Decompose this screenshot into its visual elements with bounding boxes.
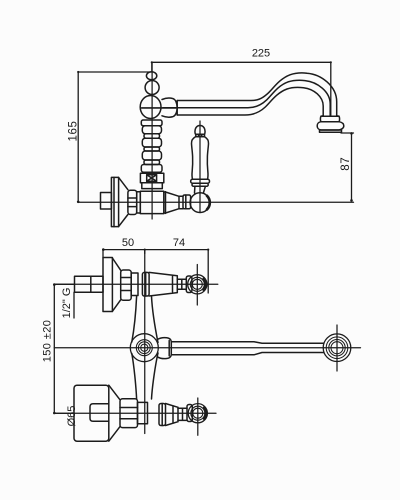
- bottom handle neck: [178, 408, 187, 420]
- 1/2" G thread label leader: [73, 292, 75, 318]
- svg-text:150 ±20: 150 ±20: [42, 320, 54, 362]
- top collar cone: [149, 272, 177, 296]
- spout tube (plan) top line: [171, 342, 323, 343]
- top collar ring: [142, 272, 149, 296]
- column rib barrel 6: [142, 151, 161, 160]
- top handle neck: [177, 279, 186, 289]
- top handle outer circle: [188, 275, 207, 294]
- dimension 50-74 line: [103, 250, 208, 293]
- column rib band 1: [141, 120, 162, 126]
- spout outlet ring top: [320, 116, 339, 122]
- lever handle lower neck: [195, 186, 206, 193]
- handle ball dark crescent: [207, 196, 210, 210]
- spout tube (plan) bottom line: [171, 353, 323, 355]
- packing nut X mark: [147, 175, 157, 182]
- column rib barrel 4: [142, 138, 161, 147]
- svg-text:74: 74: [173, 237, 185, 249]
- top handle inner circle: [192, 279, 202, 289]
- bottom stub notch: [90, 404, 109, 422]
- handle ball joint: [190, 193, 210, 213]
- bottom handle ball ring: [187, 405, 192, 422]
- svg-text:225: 225: [252, 48, 270, 60]
- column vertical centerline: [151, 62, 153, 219]
- top handle ball ring: [186, 276, 192, 293]
- bottom collar cone: [166, 404, 179, 426]
- column rib barrel 2: [142, 126, 161, 134]
- top handle dark crescent: [204, 279, 206, 290]
- bottom flange bell cone: [109, 385, 120, 441]
- bottom collar ring: [159, 404, 166, 426]
- column packing nut: [140, 173, 163, 182]
- body edge from top inlet right: [152, 296, 159, 342]
- lever handle vertical centerline: [199, 121, 201, 213]
- mixer housing screw circle: [138, 342, 150, 354]
- hex nut (side view): [128, 190, 137, 214]
- bottom body cylinder: [138, 402, 148, 423]
- bottom handle inner circle: [193, 408, 203, 418]
- lever handle body: [191, 137, 208, 180]
- lever handle base ring: [191, 179, 210, 183]
- flange bell cone: [119, 177, 128, 226]
- svg-text:165: 165: [68, 121, 80, 142]
- ring between nut and body: [137, 192, 141, 213]
- top body cylinder: [131, 273, 138, 296]
- svg-text:1/2" G: 1/2" G: [61, 288, 73, 319]
- dimension 165 line: [78, 72, 152, 202]
- spout end ring 2: [326, 337, 348, 359]
- bottom handle middle circle: [191, 406, 205, 420]
- top inlet centerline: [54, 283, 218, 285]
- wall flange plate (side view): [111, 177, 118, 226]
- mixer housing outer circle: [130, 334, 158, 362]
- column rib band 8: [141, 165, 162, 173]
- spout centerline (plan): [54, 347, 360, 349]
- bottom handle dark crescent: [204, 408, 206, 419]
- top handle middle circle: [190, 277, 204, 291]
- bottom flange plate 065 (plan): [74, 385, 109, 441]
- top hex nut (plan): [121, 270, 132, 300]
- spout outlet bulge: [317, 122, 344, 130]
- spout horizontal centerline through ball: [142, 107, 177, 109]
- mixer housing ring: [136, 340, 152, 356]
- top flange bell cone: [112, 258, 120, 311]
- top stub divider: [90, 276, 92, 292]
- valve body block (side view): [140, 191, 164, 213]
- column large spout ball: [140, 96, 161, 119]
- spout tube middle line: [163, 80, 330, 116]
- packing nut inner square: [147, 175, 157, 182]
- body edge to bottom inlet right: [152, 353, 159, 399]
- bottom hex nut (plan): [120, 399, 138, 428]
- body edge from top inlet left: [132, 296, 137, 342]
- neck band under nut: [142, 183, 163, 189]
- dimension 87 line: [341, 133, 354, 201]
- column medium ball: [145, 81, 159, 95]
- lever handle knob collar: [196, 134, 205, 136]
- column rib narrow 7: [144, 160, 160, 165]
- bottom handle outer circle: [188, 404, 207, 423]
- horizontal centerline of side view: [78, 201, 353, 203]
- body edge to bottom inlet left: [132, 354, 137, 399]
- top wall stub (plan): [75, 276, 104, 292]
- cone toward handle: [164, 192, 179, 214]
- spout collar (plan): [157, 338, 171, 359]
- bottom inlet centerline: [54, 412, 216, 414]
- spout joint line: [176, 101, 178, 116]
- spout tube bottom line: [177, 87, 323, 115]
- svg-text:87: 87: [340, 157, 352, 171]
- spout end outer circle: [323, 334, 351, 362]
- svg-text:50: 50: [122, 237, 134, 249]
- lever handle base ring 2: [192, 183, 208, 186]
- spout tube top line: [177, 73, 337, 116]
- top flange plate (plan): [103, 258, 112, 312]
- handle collar ring: [183, 195, 191, 209]
- column rib narrow 5: [144, 147, 160, 151]
- dimension 150 +/-20 line: [54, 284, 74, 413]
- spout outlet base ring: [320, 130, 342, 132]
- bottom handle cross vertical: [197, 398, 199, 435]
- mixer housing center dot: [141, 344, 148, 351]
- dimension corner accents: [53, 61, 353, 414]
- spout end cross vertical: [336, 325, 338, 371]
- spout end ring 4: [331, 342, 343, 354]
- wall stub (side view): [101, 193, 112, 210]
- spout end ring 3: [329, 340, 345, 356]
- top handle cross vertical: [196, 265, 198, 306]
- column rib narrow 3: [144, 134, 160, 138]
- lever handle top knob: [195, 126, 205, 135]
- column small finial ball: [146, 72, 156, 80]
- dimension 225 line: [152, 62, 331, 116]
- svg-text:Ø65: Ø65: [66, 406, 78, 427]
- spout socket collar: [162, 98, 177, 117]
- handle neck: [179, 196, 183, 208]
- faucet body vertical centerline: [144, 250, 146, 434]
